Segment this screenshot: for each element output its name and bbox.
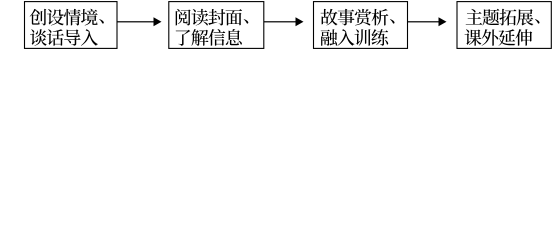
arrow 2: step 2 to step 3 xyxy=(264,17,304,26)
step 3 box: 故事赏析、融入训练 xyxy=(314,2,408,49)
step 4 box: 主题拓展、课外延伸 xyxy=(457,2,551,49)
arrow 1: step 1 to step 2 xyxy=(117,17,162,26)
step 2 box: 阅读封面、了解信息 xyxy=(169,2,264,49)
arrow 3: step 3 to step 4 xyxy=(408,17,447,26)
step 1 box: 创设情境、谈话导入 xyxy=(25,2,118,49)
